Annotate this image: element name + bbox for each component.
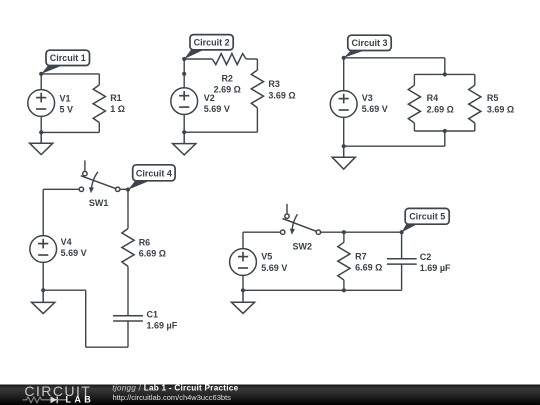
svg-text:R6: R6 bbox=[139, 237, 151, 247]
svg-text:tjongg / Lab 1 - Circuit Pract: tjongg / Lab 1 - Circuit Practice bbox=[112, 384, 238, 393]
ground C1 bbox=[30, 132, 53, 154]
resistor R3 bbox=[251, 70, 295, 108]
svg-text:6.69 Ω: 6.69 Ω bbox=[355, 263, 382, 273]
svg-text:SW1: SW1 bbox=[89, 198, 109, 208]
wire top C3 bbox=[344, 57, 445, 59]
wire SW1-right C4 bbox=[120, 188, 128, 190]
svg-text:3.69 Ω: 3.69 Ω bbox=[268, 90, 295, 100]
node junction R7-top C5 bbox=[342, 230, 346, 234]
node junction parallel-bottom C3 bbox=[443, 129, 447, 133]
svg-text:Circuit 2: Circuit 2 bbox=[194, 38, 230, 48]
node junction top-left C1 bbox=[39, 72, 43, 76]
voltage source V4 bbox=[30, 236, 87, 263]
resistor R4 bbox=[408, 85, 454, 123]
resistor R2 bbox=[212, 54, 246, 95]
svg-text:Circuit 1: Circuit 1 bbox=[50, 53, 86, 63]
svg-text:5.69 V: 5.69 V bbox=[362, 104, 388, 114]
wire bottom-drop C3 bbox=[444, 131, 446, 146]
svg-text:1.69 µF: 1.69 µF bbox=[420, 263, 451, 273]
wire left-top C4 bbox=[42, 189, 44, 235]
svg-text:5.69 V: 5.69 V bbox=[261, 263, 287, 273]
wire bottom C5 bbox=[243, 289, 402, 291]
wire parallel-top C3 bbox=[414, 73, 474, 75]
wire R4-top C3 bbox=[413, 74, 415, 85]
voltage source V2 bbox=[171, 88, 230, 115]
svg-text:Circuit 5: Circuit 5 bbox=[409, 212, 445, 222]
label Circuit 2 bbox=[184, 35, 233, 59]
label Circuit 4 bbox=[128, 165, 175, 190]
wire bottom-rise C4 bbox=[85, 290, 87, 347]
wire left-bottom C2 bbox=[183, 115, 185, 133]
resistor R1 bbox=[93, 85, 125, 123]
node junction bottom-left C3 bbox=[342, 144, 346, 148]
wire left-bottom C4 bbox=[42, 262, 44, 290]
svg-text:V5: V5 bbox=[261, 251, 272, 261]
svg-text:R4: R4 bbox=[427, 93, 439, 103]
wire top-drop C3 bbox=[444, 58, 446, 75]
wire stub SW1 throw bbox=[84, 160, 86, 171]
node junction parallel-top C3 bbox=[443, 72, 447, 76]
node junction V5-bottom C5 bbox=[241, 288, 245, 292]
ground C2 bbox=[173, 132, 196, 155]
wire left-top C2 bbox=[183, 59, 185, 88]
voltage source V5 bbox=[230, 249, 288, 276]
svg-text:SW2: SW2 bbox=[293, 241, 313, 251]
svg-text:5.69 V: 5.69 V bbox=[61, 248, 87, 258]
wire C2-top C5 bbox=[401, 232, 403, 259]
wire C1-bottom bbox=[127, 321, 129, 347]
node junction bottom-left C4 bbox=[41, 288, 45, 292]
wire left-bottom C3 bbox=[343, 117, 345, 146]
wire right-top C1 bbox=[98, 74, 100, 85]
svg-text:R7: R7 bbox=[355, 251, 367, 261]
capacitor C2 bbox=[387, 252, 451, 273]
switch SW2 bbox=[281, 214, 321, 251]
label Circuit 1 bbox=[41, 50, 89, 74]
svg-text:2.69 Ω: 2.69 Ω bbox=[214, 85, 241, 95]
svg-text:V4: V4 bbox=[61, 237, 72, 247]
wire stub SW2 throw bbox=[286, 204, 288, 214]
label Circuit 5 bbox=[402, 208, 450, 232]
wire SW2-right C5 bbox=[321, 231, 402, 233]
svg-text:R5: R5 bbox=[487, 93, 499, 103]
node junction SW1-right C4 bbox=[126, 187, 130, 191]
wire bottom-left C4 bbox=[43, 289, 85, 291]
wire right-drop C4 bbox=[127, 189, 129, 228]
wire left-top C1 bbox=[40, 74, 42, 90]
svg-text:1.69 µF: 1.69 µF bbox=[147, 321, 178, 331]
svg-text:R2: R2 bbox=[221, 73, 233, 83]
wire right-bottom C1 bbox=[98, 123, 100, 133]
wire V5-bottom C5 bbox=[242, 275, 244, 290]
ground C3 bbox=[332, 146, 355, 169]
wire top C1 bbox=[41, 73, 99, 75]
footer bar background bbox=[0, 385, 540, 405]
node wire-join left C2 bbox=[182, 72, 186, 76]
ground C5 bbox=[231, 290, 254, 313]
wire right-bottom C2 bbox=[256, 108, 258, 132]
svg-text:C1: C1 bbox=[147, 310, 159, 320]
svg-text:LAB: LAB bbox=[66, 395, 95, 405]
wire C2-bottom C5 bbox=[401, 264, 403, 290]
svg-text:5.69 V: 5.69 V bbox=[204, 104, 230, 114]
wire bottom C1 bbox=[41, 131, 99, 133]
svg-text:1 Ω: 1 Ω bbox=[110, 104, 125, 114]
svg-text:2.69 Ω: 2.69 Ω bbox=[427, 105, 454, 115]
svg-text:http://circuitlab.com/ch4w3ucc: http://circuitlab.com/ch4w3ucc63bts bbox=[113, 393, 232, 402]
svg-text:Circuit 3: Circuit 3 bbox=[351, 38, 387, 48]
logo resistor zigzag bbox=[23, 397, 51, 403]
wire right-top C2 bbox=[256, 59, 258, 70]
node junction top-left C3 bbox=[342, 56, 346, 60]
wire left-bottom C1 bbox=[40, 116, 42, 132]
resistor R5 bbox=[469, 85, 514, 123]
wire top-right C2 bbox=[246, 58, 257, 60]
svg-text:R3: R3 bbox=[268, 79, 280, 89]
svg-text:3.69 Ω: 3.69 Ω bbox=[487, 105, 514, 115]
node junction top-left C2 bbox=[182, 57, 186, 61]
svg-text:R1: R1 bbox=[110, 93, 122, 103]
svg-text:6.69 Ω: 6.69 Ω bbox=[139, 249, 166, 259]
label Circuit 3 bbox=[344, 35, 391, 58]
wire top-left C5 bbox=[243, 231, 281, 233]
wire R4-bottom C3 bbox=[413, 123, 415, 131]
wire SW1-left C4 bbox=[43, 188, 79, 190]
switch SW1 bbox=[79, 171, 120, 208]
wire bottom C4 bbox=[86, 346, 128, 348]
logo diode bbox=[51, 396, 58, 403]
wire top-left C2 bbox=[184, 58, 212, 60]
voltage source V1 bbox=[28, 90, 73, 117]
wire R7-top C5 bbox=[343, 232, 345, 242]
svg-text:V1: V1 bbox=[60, 94, 71, 104]
node junction bottom-left C2 bbox=[182, 130, 186, 134]
wire R7-bottom C5 bbox=[343, 280, 345, 290]
ground C4 bbox=[32, 290, 55, 313]
wire R5-bottom C3 bbox=[474, 123, 476, 131]
svg-text:V2: V2 bbox=[204, 93, 215, 103]
resistor R7 bbox=[338, 242, 383, 280]
node junction bottom-left C1 bbox=[39, 130, 43, 134]
svg-text:5 V: 5 V bbox=[60, 105, 74, 115]
svg-text:V3: V3 bbox=[362, 93, 373, 103]
svg-text:C2: C2 bbox=[420, 252, 432, 262]
wire left-top C3 bbox=[343, 58, 345, 91]
wire bottom C3 bbox=[344, 145, 445, 147]
capacitor C1 bbox=[113, 310, 178, 331]
node junction C2-top C5 bbox=[400, 230, 404, 234]
resistor R6 bbox=[122, 229, 166, 267]
voltage source V3 bbox=[330, 91, 387, 118]
wire V5-top C5 bbox=[242, 232, 244, 248]
node junction R7-bottom C5 bbox=[342, 288, 346, 292]
wire R6-to-C1 bbox=[127, 266, 129, 315]
wire parallel-bottom C3 bbox=[414, 130, 474, 132]
svg-text:Circuit 4: Circuit 4 bbox=[136, 168, 172, 178]
wire bottom C2 bbox=[184, 131, 257, 133]
wire R5-top C3 bbox=[474, 74, 476, 85]
